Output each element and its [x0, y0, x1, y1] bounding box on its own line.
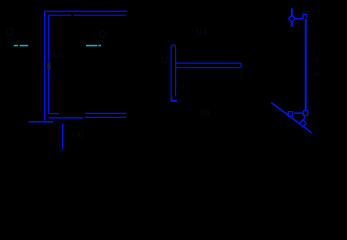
wire: middle horizontal outlined bar — [176, 63, 241, 67]
wire: cyan dashed line dash 4 — [98, 45, 101, 47]
svg-text:λ: λ — [315, 55, 319, 64]
wire: cyan dashed line dash 2 — [20, 45, 29, 47]
wire: left loop top outer edge — [44, 11, 127, 12]
wire: bottom inner stub — [49, 113, 59, 114]
wire: left loop top inner edge (right part) — [74, 15, 126, 16]
svg-text:4: 4 — [315, 69, 320, 78]
wire: left loop top inner edge (left part) — [48, 15, 71, 16]
node: dark feed gap on left inner edge — [47, 62, 50, 70]
svg-text:(a): (a) — [73, 129, 84, 139]
wire: link from mast bottom to diamond — [304, 115, 306, 120]
wire: left loop left inner edge upper segment — [48, 15, 49, 63]
wire: ground line lower edge — [29, 121, 54, 123]
node: diamond on right top stub — [289, 15, 296, 22]
svg-text:z: z — [181, 83, 185, 92]
wire: bottom middle edge — [48, 117, 83, 118]
wire: cyan dashed line dash 3 — [86, 45, 97, 47]
wire: bottom right thick line bottom edge — [84, 117, 126, 118]
wire: bottom right thick line top edge — [85, 113, 126, 114]
node: diamond on diagonal — [299, 120, 306, 127]
node: small open square at top of mast — [303, 14, 307, 19]
svg-text:U: U — [162, 55, 169, 65]
svg-text:Ω: Ω — [99, 29, 107, 41]
svg-text:λ/4: λ/4 — [195, 27, 207, 37]
wire: cyan dashed line dash 1 — [14, 45, 18, 47]
svg-text:λ/4: λ/4 — [52, 51, 63, 60]
wire: right top stub lower — [291, 22, 293, 27]
wire: middle bar bottom foot horizontal — [171, 100, 177, 102]
wire: middle vertical outlined bar — [171, 45, 176, 96]
wire: left loop left outer edge — [44, 11, 45, 123]
wire: diagonal line — [271, 103, 311, 133]
wire: left loop left inner edge lower segment — [48, 70, 49, 114]
wire: horizontal link at bottom — [294, 112, 303, 114]
svg-text:(b): (b) — [199, 108, 210, 118]
node: square handle on diagonal — [288, 112, 293, 117]
svg-text:Ω: Ω — [6, 27, 14, 39]
node: square handle at mast bottom — [303, 111, 308, 116]
wire: right vertical mast — [305, 19, 307, 111]
wire: right top stub upper — [291, 8, 293, 15]
wire: horizontal link at top — [295, 18, 303, 20]
wire: middle bar bottom foot vertical — [171, 96, 173, 101]
wire: feed lead hanging down — [62, 123, 63, 149]
